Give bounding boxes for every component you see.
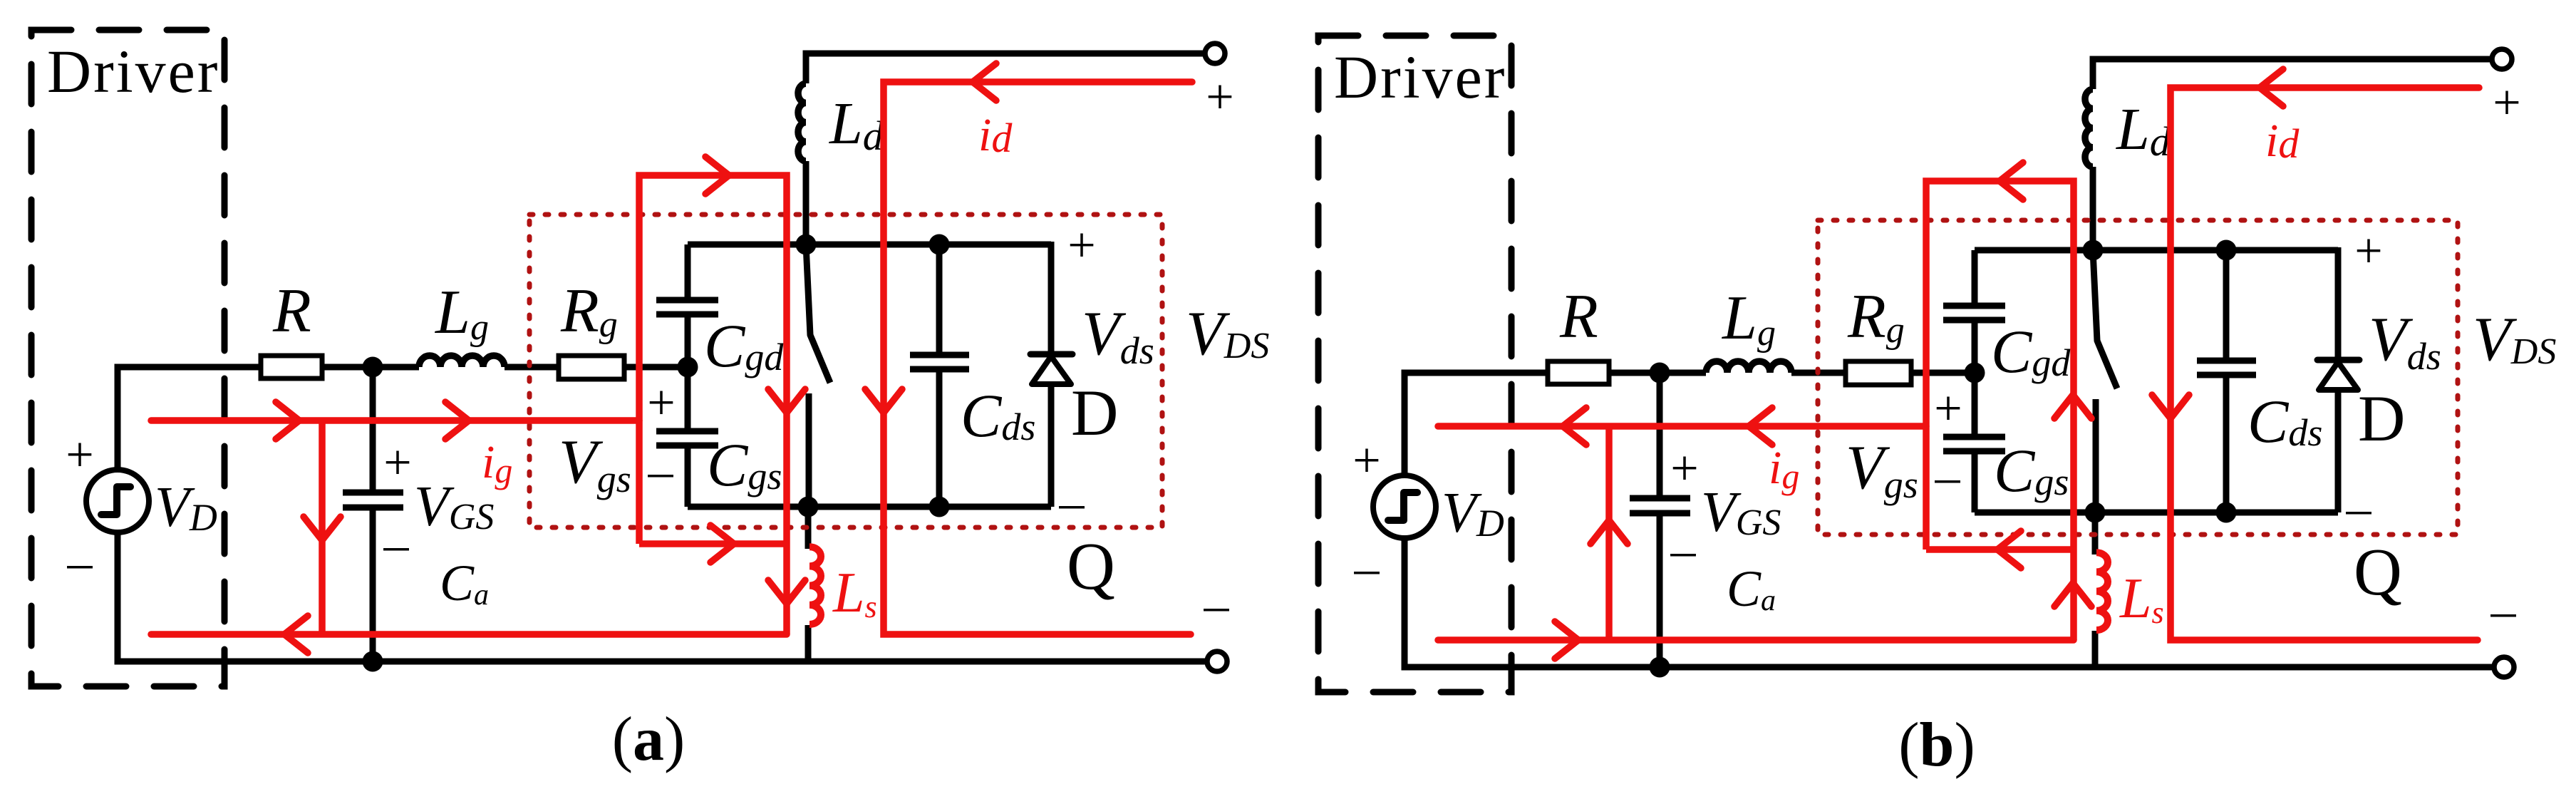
driver dashed box: [31, 30, 224, 686]
gate loop wire (left-top-right): [639, 175, 787, 634]
wire R_g to gate node: [624, 364, 688, 371]
arrow loop vertical down upper: [768, 389, 805, 413]
voltage source step symbol: [101, 487, 130, 515]
svg-text:–: –: [67, 535, 93, 590]
wire R_g to gate node: [1911, 370, 1975, 376]
wire source node to L_s: [805, 507, 812, 549]
MOSFET Q dotted boundary box: [1818, 220, 2458, 535]
diode D cathode bar: [1030, 351, 1072, 358]
svg-text:+: +: [1067, 218, 1095, 273]
wire V_D bottom to ground rail: [118, 532, 1208, 661]
voltage source step symbol: [1388, 493, 1417, 520]
drain rail wire: [688, 242, 1051, 248]
wire red branch at C_a: [1605, 426, 1613, 639]
gate loop bottom wire: [639, 540, 787, 547]
gate return wire bottom left: [151, 631, 787, 638]
wire C_gs to source rail: [1972, 454, 1978, 512]
svg-text:(b): (b): [1898, 711, 1975, 780]
wire drain node up to L_d: [803, 161, 809, 244]
svg-text:D: D: [1071, 376, 1118, 449]
wire C_gd to drain rail: [1972, 250, 1978, 303]
resistor R body: [261, 356, 322, 378]
gate loop wire (left-top-right): [1926, 181, 2074, 640]
driver dashed box: [1318, 36, 1511, 692]
circuit (a): turn-on current loops: [31, 30, 1269, 686]
svg-text:+: +: [2493, 76, 2520, 130]
negative output terminal: [2494, 657, 2514, 677]
node dot C_a bottom rail: [363, 651, 383, 672]
arrow i_d vertical down: [865, 389, 902, 413]
wire diode to source rail: [2335, 389, 2342, 512]
gate node junction dot: [1965, 363, 1985, 383]
arrow bottom left pointing left: [284, 616, 308, 653]
svg-text:–: –: [1354, 541, 1380, 596]
gate node junction dot: [678, 357, 698, 378]
voltage source V_D circle: [86, 470, 149, 532]
svg-text:+: +: [1670, 441, 1698, 496]
arrow C_a branch down: [304, 517, 341, 540]
gate loop bottom wire: [1926, 546, 2074, 553]
svg-text:–: –: [1204, 578, 1230, 633]
svg-text:R: R: [272, 277, 311, 346]
arrow i_g right 2: [445, 402, 469, 439]
arrow C_a branch up: [1590, 520, 1628, 544]
wire node A down to C_a: [1657, 373, 1663, 495]
svg-text:D: D: [2358, 382, 2405, 455]
wire source node to L_s: [2092, 512, 2099, 555]
arrow i_d vertical down: [2152, 395, 2189, 418]
arrow bottom left pointing right: [1555, 622, 1578, 659]
svg-text:–: –: [383, 517, 410, 572]
wire R to node A: [1609, 370, 1706, 376]
wire drain node up to L_d: [2090, 167, 2096, 250]
wire gate node to C_gs: [1972, 373, 1978, 434]
drain node junction dot: [796, 234, 817, 255]
wire L_s to ground rail: [2092, 631, 2099, 667]
wire V_D top to resistor R: [1405, 373, 1548, 475]
MOSFET Q dotted boundary box: [529, 215, 1162, 527]
inductor L_s red coil: [809, 547, 821, 624]
wire C_gd to drain rail: [685, 244, 691, 297]
wire C_ds to source rail: [936, 372, 943, 507]
source rail wire: [1975, 510, 2338, 516]
drain current i_d wire: [2171, 88, 2479, 640]
negative output terminal: [1207, 651, 1227, 671]
wire L_g to R_g: [1791, 370, 1846, 376]
inductor L_s red coil: [2096, 552, 2108, 630]
node dot C_ds top: [929, 234, 950, 255]
wire gate node to C_gd: [1972, 323, 1978, 373]
voltage source V_D circle: [1373, 475, 1436, 538]
arrow gate loop bottom right: [710, 525, 734, 562]
node A junction dot: [363, 357, 383, 378]
resistor R_g body: [559, 356, 624, 379]
source rail wire: [688, 504, 1051, 510]
node dot C_ds top: [2216, 240, 2237, 261]
capacitor C_gs plates: [656, 428, 718, 435]
svg-text:Driver: Driver: [1334, 43, 1506, 111]
wire C_gs to source rail: [685, 448, 691, 507]
arrow gate loop bottom left: [1997, 531, 2021, 568]
capacitor C_a plates: [1630, 495, 1690, 502]
capacitor C_ds plates: [2197, 358, 2256, 364]
svg-text:id: id: [978, 109, 1013, 161]
positive output terminal: [2492, 49, 2512, 69]
svg-text:+: +: [1934, 381, 1962, 436]
positive output terminal: [1205, 43, 1225, 63]
switch lower contact: [806, 393, 812, 507]
arrow loop vertical up upper: [2054, 395, 2091, 418]
wire red branch at C_a: [319, 421, 326, 633]
switch upper stub and blade: [806, 244, 830, 383]
drain rail wire: [1975, 247, 2338, 254]
wire V_D top to resistor R: [118, 367, 261, 470]
wire C_ds to source rail: [2223, 378, 2230, 512]
svg-text:–: –: [2346, 481, 2372, 536]
wire C_a to ground rail: [370, 510, 376, 661]
inductor L_d coil: [2085, 89, 2093, 167]
circuit (b): turn-off current loops: [1318, 36, 2556, 692]
svg-text:–: –: [2490, 584, 2517, 639]
svg-text:+: +: [647, 376, 675, 430]
drain node junction dot: [2083, 240, 2104, 261]
svg-text:+: +: [2354, 224, 2382, 279]
svg-text:Q: Q: [2354, 535, 2402, 609]
diode D triangle: [1032, 356, 1071, 384]
wire C_a to ground rail: [1657, 516, 1663, 667]
resistor R_g body: [1846, 361, 1911, 385]
wire drain rail to diode: [2335, 247, 2342, 360]
capacitor C_gd plates: [656, 311, 718, 318]
wire rail to C_ds: [936, 244, 943, 352]
capacitor C_ds plates: [910, 352, 969, 359]
svg-text:–: –: [1935, 450, 1961, 505]
arrow i_g left 2: [1749, 408, 1772, 445]
svg-text:R: R: [1559, 282, 1598, 351]
wire V_D bottom to ground rail: [1405, 538, 2495, 667]
source node junction dot: [798, 497, 819, 517]
diode D triangle: [2319, 362, 2358, 390]
svg-text:Q: Q: [1067, 530, 1115, 604]
arrow i_g left 1: [1563, 408, 1586, 445]
wire gate node to C_gs: [685, 367, 691, 428]
resistor R body: [1548, 361, 1609, 384]
svg-text:–: –: [648, 444, 674, 499]
arrow i_g right 1: [276, 402, 299, 439]
wire diode to source rail: [1048, 383, 1055, 507]
arrow i_d pointing left: [2260, 69, 2283, 106]
wire gate node to C_gd: [685, 317, 691, 367]
drain current i_d wire: [884, 82, 1192, 634]
switch upper stub and blade: [2093, 250, 2117, 388]
svg-text:Driver: Driver: [47, 37, 219, 105]
node A junction dot: [1650, 363, 1670, 383]
arrow i_d pointing left: [973, 63, 996, 100]
wire L_d to positive terminal: [2093, 59, 2493, 89]
svg-text:+: +: [383, 435, 411, 490]
svg-text:(a): (a): [612, 705, 686, 774]
source node junction dot: [2085, 502, 2106, 523]
svg-text:–: –: [1059, 475, 1085, 530]
svg-text:+: +: [1352, 433, 1380, 488]
node dot C_ds bottom: [929, 497, 950, 517]
arrow loop vertical down lower: [768, 580, 805, 604]
wire rail to C_ds: [2223, 250, 2230, 358]
capacitor C_a plates: [343, 490, 403, 496]
svg-text:–: –: [1670, 523, 1697, 578]
svg-text:+: +: [1206, 70, 1233, 125]
wire drain rail to diode: [1048, 242, 1055, 354]
node dot C_ds bottom: [2216, 502, 2237, 523]
diode D cathode bar: [2317, 357, 2359, 363]
arrow gate loop top right: [705, 157, 729, 194]
svg-text:id: id: [2265, 115, 2300, 167]
gate current i_g wire: [151, 417, 639, 424]
wire L_s to ground rail: [805, 625, 812, 661]
inductor L_d coil: [798, 83, 806, 161]
switch lower contact: [2093, 399, 2099, 512]
node dot C_a bottom rail: [1650, 657, 1670, 678]
wire node A down to C_a: [370, 367, 376, 490]
wire L_d to positive terminal: [806, 53, 1206, 83]
wire R to node A: [322, 364, 419, 371]
wire L_g to R_g: [505, 364, 559, 371]
gate return wire bottom left: [1438, 636, 2074, 644]
inductor L_g coil: [1706, 361, 1791, 373]
arrow gate loop top left: [2000, 163, 2023, 200]
inductor L_g coil: [419, 356, 505, 367]
gate current i_g wire: [1438, 423, 1926, 430]
capacitor C_gs plates: [1943, 434, 2005, 440]
svg-text:+: +: [66, 428, 93, 483]
arrow loop vertical up lower: [2054, 583, 2091, 607]
capacitor C_gd plates: [1943, 317, 2005, 324]
